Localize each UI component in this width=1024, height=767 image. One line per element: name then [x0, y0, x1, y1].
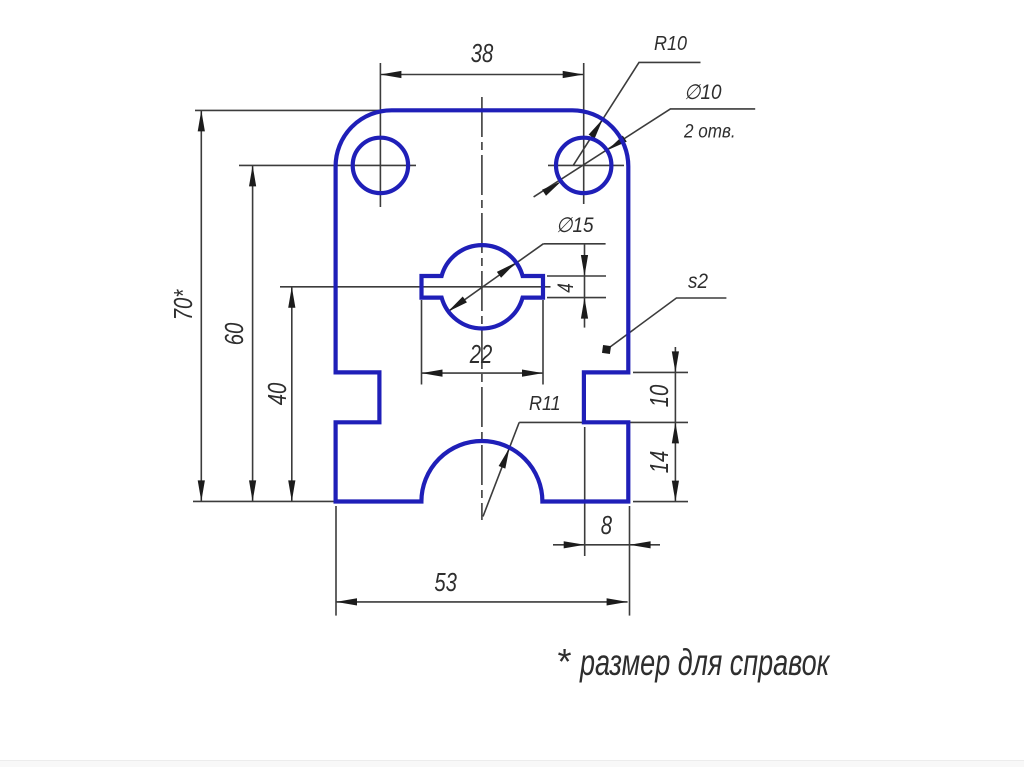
- arrow phi15 lower: [446, 296, 467, 314]
- main vertical centerline (dash-dot): [481, 97, 483, 520]
- R10 leader: [573, 62, 700, 165]
- svg-text:s2: s2: [688, 270, 708, 293]
- extension slot bottom (4 dim): [547, 297, 606, 299]
- extension notch top (10 dim): [633, 371, 688, 373]
- arrow 4 bottom (outside, pointing up): [581, 298, 588, 319]
- extension line left bottom edge: [193, 500, 336, 502]
- extension 53 left vertical: [335, 506, 337, 616]
- plate outline: [336, 110, 629, 501]
- arrow 40 top: [288, 287, 295, 308]
- extension 8 right / 53 right vertical: [629, 506, 631, 616]
- dimension line 38: [380, 74, 583, 76]
- arrow 4 top (outside, pointing down): [581, 255, 588, 276]
- svg-text:40: 40: [263, 383, 292, 406]
- extension line top edge (70 dim): [195, 109, 480, 111]
- extension bottom edge right (14 dim): [633, 501, 688, 503]
- phi15 leader diagonal: [448, 244, 544, 312]
- arrow 70 bottom: [198, 480, 205, 501]
- svg-text:60: 60: [220, 323, 249, 346]
- arrow phi10 upper: [605, 136, 626, 154]
- R11 leader diagonal: [483, 422, 519, 516]
- arrow 10 top (pointing down): [672, 351, 679, 372]
- centerline middle horizontal / 40 extension: [280, 286, 551, 288]
- arrow 53 right: [607, 598, 628, 605]
- arrow 60 bottom: [249, 480, 256, 501]
- svg-text:10: 10: [645, 385, 674, 408]
- dimension line 70: [200, 110, 202, 501]
- phi15 underline / 4 dim top reference: [543, 243, 605, 245]
- dimension line 22: [422, 372, 544, 374]
- centerline left hole horizontal / 60 extension: [239, 164, 416, 166]
- arrow 8 right (outside, pointing left): [630, 541, 651, 548]
- svg-text:R11: R11: [529, 393, 561, 415]
- arrow 14 bottom (pointing down): [672, 481, 679, 502]
- arrow 8 left (outside, pointing right): [564, 541, 585, 548]
- dimension line 8: [553, 544, 660, 546]
- arrow phi10 lower: [542, 178, 563, 196]
- hole left phi10: [353, 138, 408, 193]
- arrow 38 right: [563, 71, 584, 78]
- arrow phi15 upper: [497, 260, 518, 278]
- extension 22 right: [542, 300, 544, 385]
- slide bottom border: [0, 760, 1024, 767]
- dimension line 10 and 14: [674, 347, 676, 502]
- arrow 14 top (pointing up): [672, 422, 679, 443]
- arrow 40 bottom: [288, 480, 295, 501]
- centerline right hole vertical / 38 extension: [583, 63, 585, 204]
- dimension line 4 vertical: [584, 244, 586, 328]
- extension 22 left: [421, 300, 423, 385]
- arrow 22 right: [522, 370, 543, 377]
- svg-text:R10: R10: [654, 33, 687, 55]
- svg-text:14: 14: [645, 451, 674, 474]
- svg-text:2 отв.: 2 отв.: [683, 121, 736, 142]
- s2 leader: [608, 298, 726, 349]
- svg-text:∅10: ∅10: [684, 81, 721, 104]
- center hole phi15 with slot 22x4: [422, 245, 544, 328]
- centerline right hole horizontal: [548, 164, 624, 166]
- svg-text:4: 4: [554, 283, 579, 293]
- svg-text:*: *: [556, 641, 571, 682]
- arrow R10 leader on corner arc: [589, 117, 606, 139]
- arrow 53 left: [336, 598, 357, 605]
- extension slot top (4 dim): [547, 275, 606, 277]
- svg-text:70*: 70*: [169, 289, 198, 320]
- arrow 70 top: [198, 110, 205, 131]
- arrow 60 top: [249, 165, 256, 186]
- arrow 38 left: [380, 71, 401, 78]
- arrow 22 left: [422, 370, 443, 377]
- arrow R11 leader: [499, 446, 513, 468]
- svg-text:размер для справок: размер для справок: [579, 642, 831, 683]
- svg-text:8: 8: [601, 511, 612, 540]
- s2 surface square dot: [602, 345, 611, 354]
- svg-text:22: 22: [469, 340, 492, 369]
- dimension line 53: [336, 601, 628, 603]
- dimension line 40: [291, 287, 293, 502]
- phi10 leader: [534, 109, 756, 197]
- svg-text:∅15: ∅15: [556, 214, 594, 237]
- hole right phi10: [556, 138, 611, 193]
- dimension line 60: [252, 165, 254, 501]
- extension 8 left vertical: [584, 427, 586, 556]
- centerline left hole vertical / 38 extension: [379, 63, 381, 207]
- svg-text:53: 53: [434, 568, 457, 597]
- svg-text:38: 38: [471, 39, 494, 68]
- R11 underline / notch bottom extension: [519, 421, 688, 423]
